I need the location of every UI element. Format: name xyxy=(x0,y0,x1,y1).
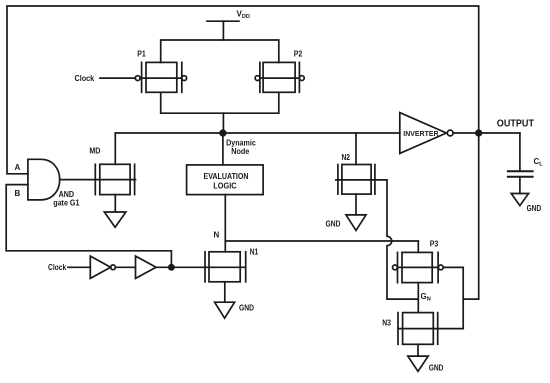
wire node N to P3 drain xyxy=(225,240,418,242)
wire P3 gate to feedback column xyxy=(443,266,463,268)
svg-text:Clock: Clock xyxy=(48,263,67,272)
wire N2 gate down to GN node with hop over node-N wire xyxy=(375,180,417,299)
svg-text:CL: CL xyxy=(534,157,544,168)
svg-text:GND: GND xyxy=(429,364,444,373)
svg-text:Node: Node xyxy=(231,147,249,156)
wire between buffer stages xyxy=(115,266,135,268)
svg-text:OUTPUT: OUTPUT xyxy=(497,119,534,130)
ground symbol below CL xyxy=(511,194,528,206)
wire evaluation logic to node N and N1 drain xyxy=(224,195,226,252)
transistor P2 (precharge PMOS) xyxy=(255,49,304,92)
transistor P3 xyxy=(393,240,444,283)
op-amp INVERTER xyxy=(400,113,453,154)
transistor N3 xyxy=(382,313,438,345)
svg-text:Clock: Clock xyxy=(75,74,95,83)
svg-text:P2: P2 xyxy=(294,49,303,58)
svg-text:P3: P3 xyxy=(430,240,439,249)
svg-text:gate G1: gate G1 xyxy=(53,198,80,207)
svg-text:P1: P1 xyxy=(137,49,146,58)
ground symbol below N2 xyxy=(346,215,366,231)
svg-text:EVALUATION: EVALUATION xyxy=(204,172,249,181)
svg-text:A: A xyxy=(15,163,21,172)
wire AND gate output to MD gate xyxy=(60,179,96,181)
transistor N1 (evaluate NMOS) xyxy=(205,247,259,281)
transistor MD (keeper NMOS) xyxy=(89,133,135,212)
buffer stage 2 xyxy=(136,256,157,278)
wire P3 source down to N3 drain through node GN xyxy=(417,283,419,313)
wire dynamic node rail xyxy=(115,132,400,134)
wire drop from precharge rail to dynamic node xyxy=(222,113,224,133)
wire OUTPUT down to feedback column xyxy=(463,133,479,299)
svg-text:GND: GND xyxy=(326,220,341,229)
wire dynamic node to N2 drain xyxy=(355,133,357,165)
svg-text:B: B xyxy=(15,189,21,198)
svg-text:LOGIC: LOGIC xyxy=(213,182,236,191)
ground symbol below N3 xyxy=(408,356,428,371)
svg-text:N1: N1 xyxy=(250,247,259,256)
inverter buffer stage 1 xyxy=(90,256,110,278)
wire N1 source to ground xyxy=(224,282,226,302)
wire dynamic node to evaluation logic xyxy=(222,133,224,165)
svg-text:MD: MD xyxy=(89,147,100,156)
svg-text:VDD: VDD xyxy=(237,9,250,20)
node junction dot buffered clock / B loop xyxy=(169,265,174,270)
transistor P1 (precharge PMOS) xyxy=(135,49,186,92)
wire VDD rail to P1 and P2 sources xyxy=(161,40,279,62)
capacitor CL xyxy=(508,133,543,194)
svg-text:Dynamic: Dynamic xyxy=(226,138,256,147)
evaluation logic block xyxy=(187,165,264,195)
AND gate G1 xyxy=(28,159,60,200)
transistor N2 xyxy=(336,153,375,194)
wire N3 source to ground xyxy=(417,344,419,356)
ground symbol below MD xyxy=(104,212,126,227)
wire input B loop from AND gate down-left to clock-buffer junction xyxy=(6,185,171,268)
wire Clock into first inverter xyxy=(68,266,90,268)
svg-text:GND: GND xyxy=(239,304,254,313)
wire P1/P2 drains to dynamic node xyxy=(161,92,279,113)
node OUTPUT junction dot xyxy=(476,130,482,136)
wire N3 gate to feedback column xyxy=(438,328,464,330)
svg-text:INVERTER: INVERTER xyxy=(403,131,438,138)
svg-text:N: N xyxy=(214,231,220,240)
svg-text:N2: N2 xyxy=(342,153,351,162)
wire N2 source to ground xyxy=(355,194,357,215)
node Dynamic Node junction dot xyxy=(220,130,226,136)
wire inverter output to OUTPUT node xyxy=(453,132,520,134)
svg-text:N3: N3 xyxy=(382,318,391,327)
wire buffer output to N1 gate xyxy=(156,266,205,268)
ground symbol below N1 xyxy=(215,302,235,318)
svg-text:GND: GND xyxy=(527,204,542,213)
svg-text:GN: GN xyxy=(421,292,431,303)
wire Clock to P1 gate xyxy=(100,77,135,79)
wire feedback column joining P3 and N3 gates xyxy=(462,267,464,328)
wire feedback loop from OUTPUT node over the top to AND input A xyxy=(7,6,479,174)
power VDD xyxy=(207,9,250,40)
